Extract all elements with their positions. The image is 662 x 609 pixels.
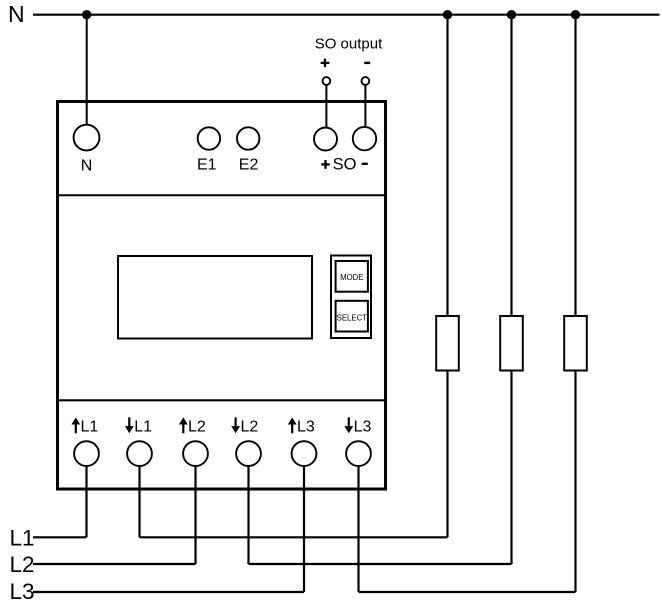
wire from N line to meter terminal N bbox=[86, 15, 88, 125]
terminal down L2 of meter bbox=[236, 441, 261, 466]
label SO output bbox=[315, 36, 383, 53]
wire from fuse F1 down to down-L1 branch bbox=[446, 371, 448, 538]
fuse F2 bbox=[500, 316, 523, 371]
svg-text:L1: L1 bbox=[10, 526, 35, 551]
label - (meter terminal) bbox=[362, 163, 368, 165]
label - (SO output polarity) bbox=[364, 62, 370, 64]
terminal N of meter bbox=[74, 125, 100, 151]
svg-text:SELECT: SELECT bbox=[337, 314, 368, 323]
svg-text:SO: SO bbox=[333, 156, 357, 174]
label L3 (phase 3 node) bbox=[10, 579, 35, 604]
wire terminal down-L1 to fuse F1 line bbox=[138, 466, 140, 537]
node N (top supply line) bbox=[33, 14, 660, 16]
wire terminal up-L1 to node L1 bbox=[85, 466, 87, 537]
label L1 (phase 1 node) bbox=[10, 526, 35, 551]
label + (SO output polarity) bbox=[321, 59, 330, 68]
wire down-L1 to fuse F1 (horizontal run) bbox=[140, 536, 448, 538]
terminal +SO of meter bbox=[314, 128, 337, 151]
svg-text:MODE: MODE bbox=[340, 273, 363, 282]
svg-text:L3: L3 bbox=[297, 418, 315, 435]
wire terminal down-L2 to fuse F2 line bbox=[247, 466, 249, 564]
svg-text:L3: L3 bbox=[10, 579, 35, 604]
fuse F1 bbox=[436, 316, 459, 371]
button SELECT bbox=[336, 301, 368, 332]
fuse F3 bbox=[564, 316, 587, 371]
terminal -SO of meter bbox=[353, 127, 376, 150]
meter bottom terminal block separator line bbox=[59, 399, 384, 401]
label up-arrow L3 (terminal 5) bbox=[288, 417, 315, 435]
wire from fuse F2 down to down-L2 branch bbox=[510, 371, 512, 565]
open terminal SO+ bbox=[323, 77, 331, 85]
wire down-L2 to fuse F2 (horizontal run) bbox=[249, 563, 512, 565]
wire terminal up-L3 to node L3 bbox=[303, 466, 305, 592]
terminal E1 bbox=[198, 127, 220, 149]
terminal up L1 of meter bbox=[74, 441, 99, 466]
wire terminal up-L2 to node L2 bbox=[194, 466, 196, 564]
label down-arrow L2 (terminal 4) bbox=[231, 417, 258, 435]
button MODE bbox=[336, 261, 368, 292]
wire from fuse F3 down to down-L3 branch bbox=[574, 371, 576, 593]
label + (meter terminal) bbox=[321, 160, 330, 169]
label N (meter terminal) bbox=[81, 157, 93, 174]
svg-text:E2: E2 bbox=[239, 156, 259, 173]
svg-text:L3: L3 bbox=[354, 418, 372, 435]
terminal down L3 of meter bbox=[346, 441, 371, 466]
svg-text:L2: L2 bbox=[188, 418, 206, 435]
open terminal SO- bbox=[362, 77, 370, 85]
terminal up L2 of meter bbox=[183, 441, 208, 466]
wire terminal down-L3 to fuse F3 line bbox=[357, 466, 359, 592]
svg-text:L2: L2 bbox=[10, 552, 35, 577]
wire from N line to fuse F1 bbox=[446, 15, 448, 316]
svg-text:N: N bbox=[8, 1, 25, 27]
label SO (meter terminal) bbox=[333, 156, 357, 174]
label E2 bbox=[239, 156, 259, 173]
button panel frame bbox=[331, 256, 371, 339]
wire SO+ to meter terminal +SO bbox=[325, 85, 327, 128]
svg-text:SO output: SO output bbox=[315, 36, 383, 53]
terminal up L3 of meter bbox=[292, 441, 317, 466]
label N (supply line) bbox=[8, 1, 25, 27]
node L2 wire to terminal up-L2 bbox=[33, 563, 196, 565]
junction dot on N at fuse F1 branch bbox=[443, 10, 452, 19]
LCD display of meter bbox=[118, 256, 312, 339]
junction dot on N at fuse F2 branch bbox=[507, 10, 516, 19]
svg-text:N: N bbox=[81, 157, 93, 174]
node L1 wire to terminal up-L1 bbox=[33, 536, 87, 538]
meter M1 body (3-phase energy meter) bbox=[58, 102, 386, 490]
svg-text:E1: E1 bbox=[197, 156, 217, 173]
label up-arrow L2 (terminal 3) bbox=[179, 417, 206, 435]
terminal E2 bbox=[237, 127, 259, 149]
wire SO- to meter terminal -SO bbox=[364, 85, 366, 127]
wire from N line to fuse F2 bbox=[510, 15, 512, 316]
node L3 wire to terminal up-L3 bbox=[33, 591, 304, 593]
svg-text:L2: L2 bbox=[241, 418, 259, 435]
label E1 bbox=[197, 156, 217, 173]
meter top terminal block separator line bbox=[59, 194, 384, 196]
terminal down L1 of meter bbox=[127, 441, 152, 466]
svg-text:L1: L1 bbox=[134, 418, 152, 435]
label L2 (phase 2 node) bbox=[10, 552, 35, 577]
label up-arrow L1 (terminal 1) bbox=[71, 417, 98, 435]
wire down-L3 to fuse F3 (horizontal run) bbox=[359, 591, 576, 593]
junction dot on N at fuse F3 branch bbox=[571, 10, 580, 19]
label down-arrow L3 (terminal 6) bbox=[344, 417, 371, 435]
svg-text:L1: L1 bbox=[81, 418, 99, 435]
junction dot on N at neutral drop bbox=[82, 10, 91, 19]
wire from N line to fuse F3 bbox=[574, 15, 576, 316]
label down-arrow L1 (terminal 2) bbox=[125, 417, 152, 435]
